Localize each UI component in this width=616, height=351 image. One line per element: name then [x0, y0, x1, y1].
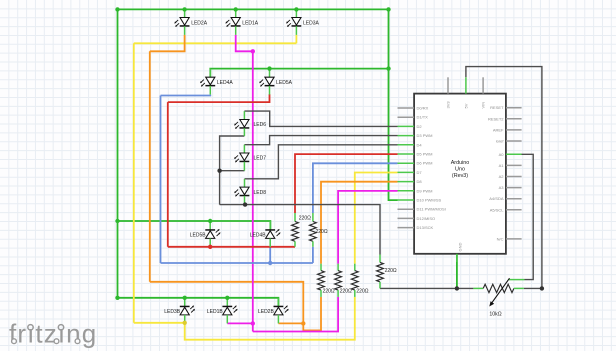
- resistor R2 220: [335, 264, 342, 297]
- junction green 9: [115, 296, 119, 300]
- LED LED2B: [274, 298, 289, 324]
- junction green 2: [234, 7, 238, 11]
- svg-text:LED5A: LED5A: [276, 80, 293, 86]
- svg-text:VIN: VIN: [481, 102, 486, 109]
- potentiometer RV1 10k: [473, 278, 524, 306]
- svg-text:A5/SCL: A5/SCL: [490, 207, 505, 212]
- svg-text:3V3: 3V3: [446, 101, 451, 109]
- wire yellow left vertical: [133, 43, 135, 323]
- wire orange left vertical: [149, 51, 151, 281]
- junction blue LED4B anode: [268, 261, 272, 265]
- wire yellow R3 top to D7: [355, 173, 398, 264]
- wire red LED5A cathode: [168, 94, 270, 102]
- wire yellow to LED3B anode: [134, 322, 185, 324]
- svg-text:LED3A: LED3A: [303, 20, 320, 26]
- svg-text:Uno: Uno: [455, 167, 465, 173]
- wire 5V-LED bus1 top: [118, 8, 389, 10]
- junction green 3: [294, 7, 298, 11]
- wire gray pot right to 5V wire: [524, 287, 542, 289]
- svg-text:LED3B: LED3B: [164, 309, 181, 315]
- wire gray LED8 anode to D4: [245, 145, 398, 179]
- svg-text:D12/MISO: D12/MISO: [417, 216, 436, 221]
- junction green 6: [267, 66, 271, 70]
- LED LED3A: [286, 9, 301, 35]
- junction orange LED2B anode: [301, 321, 305, 325]
- wire green right vertical to D10: [389, 9, 398, 200]
- svg-text:LED6: LED6: [254, 122, 267, 128]
- wire magenta to LED1B anode: [227, 322, 253, 324]
- svg-text:D9 PWM: D9 PWM: [417, 188, 433, 193]
- wire green bus2 (LED4A/5A anodes): [210, 69, 388, 78]
- LED LED1A: [225, 9, 240, 35]
- wire green left vertical: [117, 9, 119, 297]
- svg-text:LED1A: LED1A: [242, 20, 259, 26]
- svg-text:5V: 5V: [463, 103, 468, 108]
- svg-text:D11 PWM/MOSI: D11 PWM/MOSI: [417, 207, 446, 212]
- svg-text:D0/RX: D0/RX: [417, 106, 429, 111]
- LED LED5A: [259, 69, 274, 95]
- LED LED7: [234, 145, 249, 171]
- svg-text:D3 PWM: D3 PWM: [417, 133, 433, 138]
- wire blue R5 top to D6: [313, 163, 398, 213]
- svg-text:220Ω: 220Ω: [385, 268, 397, 274]
- wire green bus4 (LED3B/1B/2B cathodes): [118, 298, 279, 306]
- junction gray LED7 cathode: [217, 169, 221, 173]
- svg-text:LED8: LED8: [254, 190, 267, 196]
- junction gray LED8 cathode: [243, 202, 247, 206]
- svg-text:LED2B: LED2B: [258, 309, 275, 315]
- svg-text:A3: A3: [499, 185, 505, 190]
- junction magenta bend: [251, 49, 255, 53]
- wire gray LED7 anode to D3: [244, 136, 397, 145]
- resistor R6 220: [377, 255, 384, 289]
- wire gray LED7 cathode to junction: [220, 170, 245, 172]
- wire orange jog to R1: [303, 297, 321, 331]
- junction yellow LED3B anode: [183, 321, 187, 325]
- wire red R4 top to D5: [295, 154, 398, 213]
- svg-text:LED4B: LED4B: [250, 233, 267, 239]
- svg-text:RESET: RESET: [490, 105, 504, 110]
- wire red left vertical: [167, 102, 169, 247]
- junction green 8: [208, 219, 212, 223]
- wire blue R5 bottom: [312, 247, 314, 263]
- wire blue bus low: [161, 262, 313, 264]
- wire magenta to R2: [253, 297, 338, 332]
- wire gray 5V wire: [466, 67, 542, 289]
- junction green 5: [386, 66, 390, 70]
- junction red LED5B anode: [208, 245, 212, 249]
- wire gray LED6 anode to D2: [244, 111, 397, 126]
- resistor R5 220: [310, 213, 317, 247]
- LED LED6: [234, 111, 249, 136]
- svg-text:A0: A0: [499, 152, 505, 157]
- svg-text:A1: A1: [499, 163, 505, 168]
- LED LED4A: [200, 69, 215, 95]
- Arduino Uno U1: [398, 77, 522, 262]
- svg-text:Arduino: Arduino: [451, 160, 470, 166]
- svg-text:D1/TX: D1/TX: [417, 115, 429, 120]
- junction green 10: [183, 296, 187, 300]
- wire blue LED4A cathode: [161, 94, 211, 97]
- svg-text:LED7: LED7: [254, 156, 267, 162]
- svg-text:A4/SDA: A4/SDA: [489, 196, 504, 201]
- svg-text:D7: D7: [417, 170, 423, 175]
- svg-text:LED5B: LED5B: [190, 233, 207, 239]
- wire gray LED8 cathode bus to R6: [220, 205, 380, 255]
- LED LED2A: [174, 9, 189, 35]
- resistor R4 220: [292, 213, 299, 247]
- resistor R3 220: [351, 264, 358, 297]
- wire blue LED4B anode down: [269, 247, 271, 263]
- svg-text:220Ω: 220Ω: [340, 288, 352, 294]
- svg-text:D2: D2: [417, 124, 423, 129]
- LED LED8: [234, 179, 249, 205]
- svg-text:D13/SCK: D13/SCK: [417, 225, 434, 230]
- junction gray GND: [455, 286, 459, 290]
- wire gray LED6 cathode down-left: [220, 136, 245, 205]
- wire magenta R2 top to D9: [338, 191, 397, 264]
- junction magenta LED1B anode: [251, 321, 255, 325]
- wire yellow horizontal top: [134, 42, 297, 44]
- wire orange R1 top to D8: [321, 182, 398, 264]
- svg-text:RESET2: RESET2: [488, 116, 504, 121]
- svg-text:D10 PWM/SS: D10 PWM/SS: [417, 198, 442, 203]
- wire gray GND bus: [380, 287, 473, 289]
- svg-text:ioref: ioref: [496, 139, 505, 144]
- svg-text:A2: A2: [499, 174, 505, 179]
- svg-text:AREF: AREF: [493, 127, 504, 132]
- svg-text:D4: D4: [417, 142, 423, 147]
- junction green 1: [182, 7, 186, 11]
- wire red bus (LED5B anode): [168, 246, 295, 248]
- junction gray pot right: [540, 286, 544, 290]
- junction green 11: [225, 296, 229, 300]
- svg-text:10kΩ: 10kΩ: [489, 312, 501, 318]
- wire magenta LED1A cathode: [236, 35, 253, 51]
- wire magenta long vertical: [252, 51, 254, 331]
- wire green GND pin to bus: [456, 254, 458, 289]
- svg-text:LED4A: LED4A: [217, 80, 234, 86]
- LED LED1B: [222, 298, 237, 324]
- wire orange LED2A cathode down: [150, 35, 185, 51]
- junction green 4: [386, 7, 390, 11]
- LED LED5B: [205, 221, 220, 247]
- svg-text:(Rev3): (Rev3): [452, 173, 468, 179]
- junction green 0: [115, 7, 119, 11]
- svg-text:220Ω: 220Ω: [323, 289, 335, 295]
- wire orange horizontal low: [150, 282, 303, 324]
- svg-text:D5 PWM: D5 PWM: [417, 152, 433, 157]
- svg-text:220Ω: 220Ω: [316, 229, 328, 235]
- wire gray A0 to pot wiper: [517, 154, 533, 279]
- junction green 7: [115, 219, 119, 223]
- wire orange LED2B anode: [278, 322, 303, 324]
- wire green bus3 (LED5B/4B cathodes): [118, 221, 271, 229]
- svg-text:D8: D8: [417, 179, 423, 184]
- svg-text:frıtzıng: frıtzıng: [9, 319, 97, 349]
- LED LED3B: [180, 298, 195, 323]
- wire yellow LED3B to R3: [185, 297, 355, 340]
- resistor R1 220: [318, 264, 325, 297]
- wire yellow LED3A cathode down: [295, 35, 297, 43]
- svg-text:GND: GND: [458, 243, 463, 252]
- svg-text:LED1B: LED1B: [207, 309, 224, 315]
- LED LED4B: [265, 221, 280, 247]
- wire blue left vertical: [160, 96, 162, 264]
- svg-text:LED2A: LED2A: [191, 20, 208, 26]
- svg-text:N/C: N/C: [497, 236, 504, 241]
- fritzing logo: [9, 319, 97, 349]
- wire gray R6 bottom to GND bus: [379, 287, 381, 289]
- svg-text:220Ω: 220Ω: [299, 215, 311, 221]
- svg-text:220Ω: 220Ω: [356, 288, 368, 294]
- svg-text:D6 PWM: D6 PWM: [417, 161, 433, 166]
